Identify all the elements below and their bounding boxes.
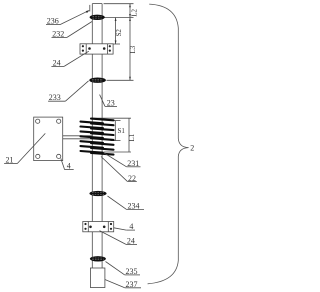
svg-text:232: 232	[52, 29, 64, 38]
svg-text:236: 236	[47, 17, 59, 26]
svg-text:237: 237	[126, 280, 138, 289]
dimension arrows	[115, 4, 131, 81]
dimension extension line top (shaft top)	[104, 3, 134, 5]
brace 2	[148, 4, 189, 284]
leader 22	[101, 157, 137, 182]
leader 236	[46, 10, 90, 25]
rod connecting plate to shaft	[63, 136, 93, 139]
bearing block U1 (part 24 top)	[80, 44, 113, 54]
leader 4 bottom	[114, 228, 135, 230]
plate 21	[34, 117, 63, 161]
svg-text:L3: L3	[129, 45, 137, 53]
svg-text:23: 23	[107, 98, 115, 107]
svg-text:L2: L2	[131, 9, 139, 17]
collar C2 (part 233)	[89, 78, 106, 83]
leader 231	[104, 153, 141, 167]
leader 232	[52, 22, 93, 38]
svg-text:22: 22	[128, 174, 136, 183]
svg-text:S1: S1	[118, 127, 126, 135]
leader 235	[106, 262, 141, 275]
svg-text:231: 231	[127, 159, 139, 168]
spring 22/231	[81, 119, 114, 155]
bearing block U2 (part 24 bottom)	[83, 222, 114, 232]
dimension extension line at collar 1	[105, 17, 134, 19]
wire shaft top cap	[92, 3, 102, 5]
svg-text:S2: S2	[115, 29, 123, 37]
svg-text:4: 4	[129, 222, 133, 231]
collar C3 (part 234)	[89, 191, 106, 196]
svg-text:24: 24	[127, 236, 135, 245]
leader 21	[4, 133, 45, 163]
dimension tick S2 bottom	[111, 43, 120, 45]
dimension extension line at collar 2	[107, 79, 134, 81]
svg-text:235: 235	[126, 267, 138, 276]
leader 234	[108, 196, 145, 209]
svg-text:4: 4	[67, 162, 71, 171]
leader 4 plate	[61, 158, 74, 169]
svg-text:L1: L1	[128, 133, 136, 141]
collar C4 (part 235)	[90, 256, 106, 261]
dimension line L2/L3	[129, 4, 131, 81]
collar C1 (part 232)	[90, 15, 105, 20]
dimension tick S1 top	[111, 120, 121, 122]
box 237	[90, 268, 105, 288]
dimension tick S1 bottom	[111, 140, 121, 142]
dimension line S1	[114, 121, 116, 141]
leader 233	[48, 81, 89, 101]
svg-text:233: 233	[49, 93, 61, 102]
leader 23	[100, 95, 117, 107]
svg-text:234: 234	[128, 201, 140, 210]
dimension line S2	[115, 18, 117, 45]
leader 24 top	[51, 51, 88, 66]
leader 237	[105, 280, 141, 288]
svg-text:21: 21	[6, 156, 14, 165]
leader 24 bottom	[100, 231, 138, 245]
svg-text:2: 2	[190, 143, 194, 152]
wire shaft left edge	[91, 4, 93, 268]
dimension extension line spring top	[93, 117, 132, 119]
pin 236	[89, 5, 91, 12]
dimension extension line spring bottom	[104, 151, 131, 153]
svg-text:24: 24	[53, 58, 61, 67]
wire shaft right edge	[101, 4, 103, 268]
dimension line L1	[128, 118, 130, 152]
